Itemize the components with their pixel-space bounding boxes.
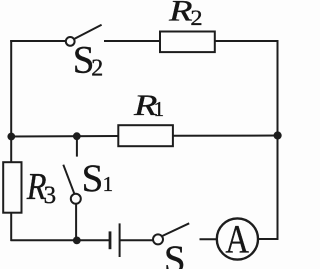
svg-text:1: 1 — [154, 97, 165, 121]
switch S1 (vertical) — [63, 136, 81, 241]
svg-text:2: 2 — [91, 55, 103, 81]
label R1 — [133, 89, 164, 122]
svg-text:1: 1 — [103, 172, 114, 196]
wire left vertical — [10, 40, 12, 241]
node junction dot left-middle — [7, 133, 15, 141]
label S2 — [73, 39, 104, 82]
wire right vertical — [277, 40, 279, 240]
label S1 — [82, 157, 114, 200]
svg-text:S: S — [164, 238, 186, 269]
wire top rail right segment (R2 to top-right corner) — [214, 40, 279, 42]
label R3 — [26, 166, 56, 209]
wire bottom rail left segment — [11, 239, 110, 241]
battery cell — [110, 223, 120, 257]
wire switch-S-to-ammeter segment — [200, 238, 218, 240]
node junction dot S1-top — [73, 132, 81, 140]
wire ammeter-to-right-corner segment — [258, 238, 279, 240]
node junction dot right-middle — [274, 131, 282, 139]
switch S2 — [66, 25, 102, 46]
switch S — [153, 223, 189, 244]
resistor R3 — [3, 162, 21, 213]
wire middle rail right segment — [173, 135, 279, 137]
node junction dot S1-bottom — [73, 237, 81, 245]
svg-text:A: A — [225, 217, 249, 262]
svg-text:R: R — [168, 0, 193, 28]
wire top rail middle segment (S2 fixed contact to R2) — [104, 40, 161, 42]
wire bottom rail battery-to-switch segment — [121, 239, 154, 241]
wire middle rail left segment — [11, 135, 119, 138]
resistor R2 — [160, 32, 215, 53]
wire top rail left segment — [10, 40, 66, 42]
svg-text:3: 3 — [44, 182, 57, 209]
svg-text:S: S — [82, 157, 104, 200]
svg-text:2: 2 — [190, 5, 202, 30]
ammeter A — [217, 217, 258, 262]
resistor R1 — [118, 125, 173, 146]
label R2 — [168, 0, 203, 30]
